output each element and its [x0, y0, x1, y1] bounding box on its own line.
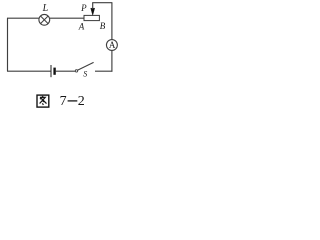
battery short thick plate [53, 68, 55, 75]
lamp X diagonal 2 [41, 16, 49, 24]
ammeter circle [106, 40, 117, 51]
wire: right vertical upper [111, 3, 113, 40]
svg-text:P: P [80, 3, 87, 13]
wire: lamp to rheostat [50, 17, 84, 19]
svg-text:2: 2 [78, 94, 85, 109]
wire: top left horizontal to lamp [7, 17, 39, 19]
rheostat body rect [84, 15, 99, 20]
图 inner stroke: right-falling [41, 99, 46, 104]
svg-text:B: B [100, 21, 106, 31]
switch pivot dot [75, 70, 77, 72]
图 inner stroke: top left-falling [40, 96, 43, 99]
background [0, 0, 128, 115]
circuit schematic figure 7-2 [0, 0, 128, 115]
wire: battery to switch [56, 70, 76, 72]
svg-text:7: 7 [60, 94, 67, 109]
svg-text:L: L [42, 3, 49, 14]
lamp X diagonal 1 [41, 16, 49, 24]
lamp L circle [39, 14, 50, 25]
caption character 图 drawn as strokes [37, 95, 49, 107]
图 inner stroke: horizontal + long left-falling [40, 97, 46, 103]
svg-text:A: A [78, 21, 85, 31]
wire: bottom right horizontal [95, 70, 112, 72]
图 inner dot upper [42, 101, 45, 102]
switch S blade [77, 62, 93, 70]
wire: left vertical [7, 18, 9, 71]
图 inner dot lower [42, 103, 43, 105]
图 outer box [37, 95, 49, 107]
caption dash [68, 100, 78, 102]
wire: right vertical lower [111, 50, 113, 71]
battery long thin plate [50, 65, 52, 77]
slider stem [92, 3, 94, 9]
wire: bottom left horizontal [7, 70, 51, 72]
svg-text:A: A [109, 40, 116, 50]
wire: top right horizontal [92, 2, 112, 4]
rheostat slider arrow P [91, 8, 95, 15]
svg-text:S: S [83, 70, 87, 79]
